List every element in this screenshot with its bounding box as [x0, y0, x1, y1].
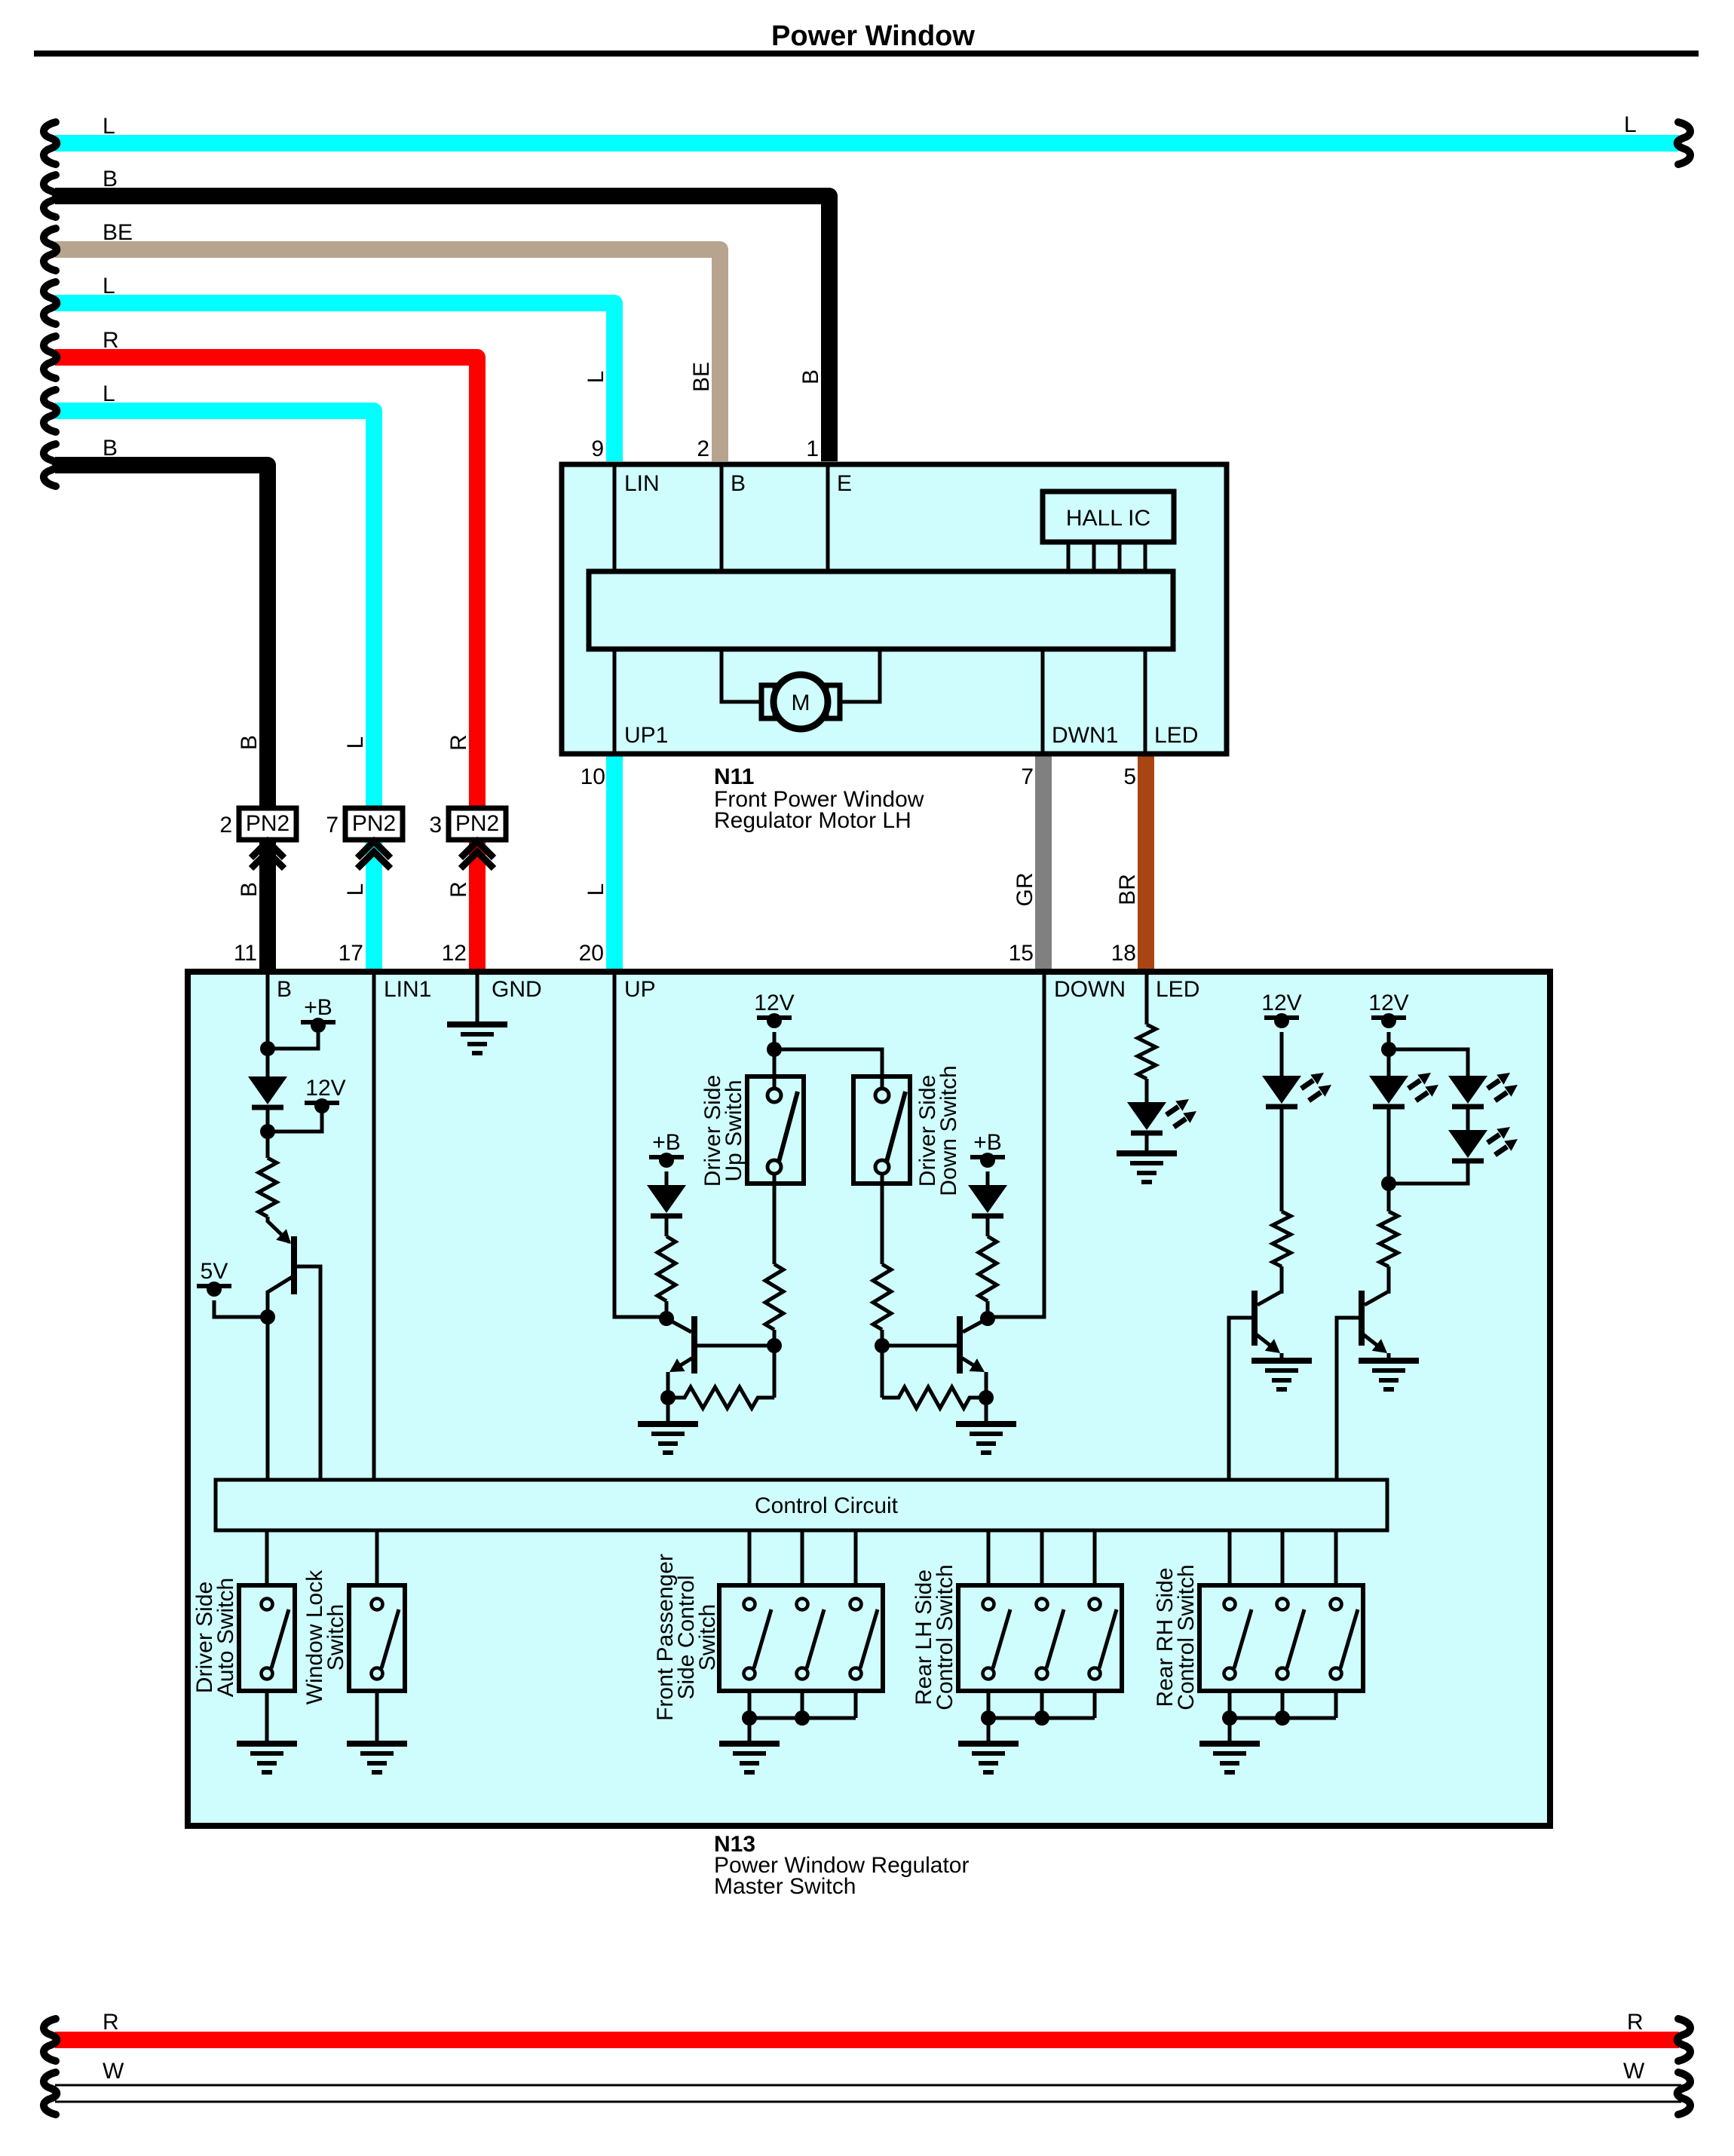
title rule: [34, 51, 1699, 57]
svg-text:Control Switch: Control Switch: [933, 1564, 957, 1710]
svg-text:W: W: [103, 2059, 124, 2084]
transistor Q3 bar: [957, 1316, 963, 1374]
wire LED1 to ground: [1145, 1132, 1149, 1153]
svg-text:Control Circuit: Control Circuit: [755, 1493, 899, 1518]
svg-text:12V: 12V: [754, 991, 794, 1015]
wire R9 to Q4: [1280, 1266, 1284, 1294]
svg-text:BE: BE: [689, 362, 714, 392]
break symbol wire B: [44, 175, 57, 217]
junction dot LED right: [1381, 1042, 1396, 1057]
svg-text:20: 20: [579, 941, 604, 966]
break symbol right wire L: [1677, 122, 1690, 164]
svg-text:LIN1: LIN1: [384, 977, 431, 1002]
diode D3: [968, 1185, 1007, 1216]
switch Driver Side Up: [747, 1076, 804, 1184]
LED LED3: [1369, 1073, 1438, 1107]
wire +B to diode: [665, 1171, 669, 1185]
wire 5V to line: [214, 1300, 268, 1317]
svg-text:B: B: [731, 471, 746, 496]
connector PN2 pin 7: [326, 808, 403, 840]
svg-text:L: L: [103, 114, 115, 139]
svg-text:PN2: PN2: [246, 811, 290, 836]
section line UP: [614, 975, 666, 1317]
transistor Q2 emitter: [673, 1358, 693, 1370]
break symbol wire B2: [44, 444, 57, 486]
wire bar to RH pole1: [1228, 1530, 1232, 1585]
divider UP1: [613, 649, 617, 752]
svg-text:DOWN: DOWN: [1054, 977, 1126, 1002]
svg-text:DWN1: DWN1: [1052, 723, 1118, 748]
terminal +B UP left: [649, 1130, 684, 1168]
svg-text:7: 7: [1021, 764, 1034, 789]
transistor Q2 collector: [666, 1318, 691, 1332]
svg-text:2: 2: [697, 436, 709, 461]
junction dot FP 1: [742, 1710, 757, 1726]
svg-text:3: 3: [429, 813, 442, 838]
ground LH: [958, 1744, 1019, 1772]
svg-text:Master Switch: Master Switch: [714, 1874, 856, 1899]
wire +B to diode D3: [986, 1171, 990, 1185]
wire Q5 to ground: [1387, 1353, 1391, 1361]
transistor Q3 emitter arrow: [970, 1358, 985, 1372]
svg-text:5V: 5V: [201, 1259, 228, 1284]
ground LED1: [1117, 1153, 1177, 1182]
wire down switch to resistor: [881, 1173, 884, 1264]
wire D3 to R6: [986, 1215, 990, 1236]
svg-text:Regulator Motor LH: Regulator Motor LH: [714, 808, 911, 833]
control circuit bar: [216, 1480, 1387, 1530]
svg-text:UP1: UP1: [624, 723, 668, 748]
svg-text:R: R: [446, 734, 471, 751]
svg-text:B: B: [103, 167, 118, 191]
junction dot 12V: [260, 1124, 275, 1139]
svg-text:15: 15: [1009, 941, 1034, 966]
transistor Q5 emitter arrow: [1372, 1339, 1387, 1353]
transistor Q4 base wire: [1229, 1318, 1255, 1478]
terminal 12V: [305, 1076, 346, 1113]
junction dot B+B: [260, 1041, 275, 1056]
diode D2: [647, 1185, 686, 1216]
wires FP poles down: [749, 1691, 856, 1744]
resistor R1: [259, 1158, 277, 1217]
wire BE to motor pin 2: [55, 250, 720, 461]
wires LH poles down: [988, 1691, 1095, 1744]
svg-text:5: 5: [1123, 764, 1136, 789]
LED LED5: [1448, 1127, 1518, 1161]
transistor Q3 collector: [963, 1318, 988, 1332]
break symbol R right: [1677, 2019, 1690, 2061]
wire bar to FP pole3: [854, 1530, 858, 1585]
resistor R3: [873, 1264, 891, 1330]
motor brush left: [761, 685, 775, 718]
divider LIN: [613, 466, 617, 571]
terminal 12V UP: [754, 991, 794, 1028]
motor M: [774, 675, 828, 729]
svg-text:L: L: [1624, 112, 1637, 137]
svg-text:Power Window: Power Window: [771, 20, 975, 52]
wire bar to RH pole2: [1281, 1530, 1285, 1585]
break symbol left wire L: [44, 122, 57, 164]
transistor Q2 base wire: [696, 1344, 774, 1348]
svg-text:12V: 12V: [305, 1076, 345, 1101]
connector PN2 pin 2: [219, 808, 296, 840]
svg-text:B: B: [103, 436, 118, 461]
junction dot Q2 collector: [659, 1311, 674, 1326]
break symbol wire L2: [44, 282, 57, 324]
svg-text:L: L: [584, 884, 608, 896]
svg-text:+B: +B: [304, 995, 332, 1020]
svg-text:UP: UP: [624, 977, 656, 1002]
wire 12V to down switch: [774, 1049, 882, 1089]
transistor Q5 emitter: [1363, 1334, 1384, 1351]
wire R6 to node: [986, 1301, 990, 1318]
junction dot RH 1: [1222, 1710, 1237, 1726]
terminal 5V: [197, 1259, 231, 1297]
svg-text:B: B: [237, 735, 262, 750]
svg-text:GR: GR: [1013, 873, 1037, 907]
resistor R8: [1138, 1024, 1156, 1079]
transistor Q4 emitter: [1256, 1334, 1277, 1351]
resistor R9: [1273, 1211, 1291, 1266]
divider B: [720, 466, 724, 571]
transistor Q2 emitter arrow: [669, 1358, 685, 1372]
junction dot 12V UP: [767, 1042, 782, 1057]
svg-text:17: 17: [339, 941, 363, 966]
LED LED4: [1448, 1073, 1518, 1107]
junction dot FP 2: [795, 1710, 810, 1726]
svg-text:L: L: [584, 371, 608, 384]
svg-text:LED: LED: [1156, 977, 1199, 1002]
ground Q4: [1251, 1361, 1312, 1389]
ground Q2: [638, 1424, 698, 1453]
wire branch right: [1389, 1049, 1468, 1076]
LED LED1: [1127, 1099, 1196, 1133]
wire Q4 to ground: [1280, 1353, 1284, 1361]
svg-text:1: 1: [806, 436, 819, 461]
wire D2 to R4: [665, 1215, 669, 1236]
svg-text:+B: +B: [973, 1130, 1002, 1155]
resistor R4: [657, 1236, 676, 1301]
hall ic box: [1043, 492, 1174, 542]
svg-text:BR: BR: [1115, 874, 1140, 905]
break symbol R left: [44, 2019, 57, 2061]
wire bar to LH pole3: [1093, 1530, 1097, 1585]
svg-text:BE: BE: [103, 220, 133, 245]
chevron marks PN2 3: [461, 841, 494, 868]
svg-text:R: R: [103, 2010, 119, 2035]
svg-text:Control Switch: Control Switch: [1174, 1564, 1199, 1710]
chevron marks PN2 2: [251, 841, 284, 868]
wire LED2 to R9: [1280, 1106, 1284, 1211]
ground Q5: [1359, 1361, 1419, 1389]
resistor R6: [979, 1236, 997, 1301]
resistor R5: [668, 1387, 774, 1408]
wire to motor left brush: [721, 649, 763, 702]
break symbol W right: [1677, 2072, 1690, 2115]
ground FP: [719, 1744, 780, 1772]
wire bar to LH pole1: [987, 1530, 991, 1585]
wire window lock to ground: [375, 1691, 379, 1744]
transistor Q4 collector: [1258, 1291, 1282, 1305]
switch Rear LH Side Control: [958, 1585, 1122, 1691]
wire to +B terminal: [268, 1033, 318, 1049]
svg-text:L: L: [103, 274, 115, 299]
diode D1: [248, 1076, 287, 1107]
switch Rear RH Side Control: [1199, 1585, 1363, 1691]
LED LED2: [1262, 1073, 1331, 1107]
ground window lock: [347, 1744, 407, 1772]
wire bar to FP pole2: [801, 1530, 804, 1585]
wire bar to window lock switch: [375, 1530, 379, 1585]
wire L to master pin 17: [55, 411, 374, 972]
break symbol wire L3: [44, 390, 57, 432]
wire bar to FP pole1: [748, 1530, 752, 1585]
svg-text:7: 7: [326, 813, 339, 838]
svg-text:B: B: [277, 977, 292, 1002]
transistor Q3 emitter: [961, 1358, 981, 1370]
switch Driver Side Down: [853, 1076, 910, 1184]
switch Window Lock: [349, 1585, 405, 1691]
motor inner bar: [589, 571, 1173, 649]
wire LED3 to R10: [1387, 1106, 1391, 1211]
svg-text:M: M: [792, 691, 810, 715]
svg-text:11: 11: [234, 941, 257, 966]
transistor Q3 base wire: [882, 1344, 958, 1348]
wire Q2 emitter down: [666, 1372, 670, 1398]
svg-text:E: E: [837, 471, 852, 496]
wire W bottom: [55, 2085, 1681, 2102]
transistor Q4 emitter arrow: [1265, 1339, 1280, 1353]
transistor Q1 bar: [291, 1236, 297, 1294]
wire 12V down: [773, 1032, 777, 1089]
junction dot LED merge: [1381, 1176, 1396, 1191]
transistor Q5 collector: [1365, 1291, 1389, 1305]
svg-text:B: B: [798, 369, 823, 384]
wire L (left-to-right): [55, 135, 1679, 152]
terminal +B: [301, 995, 335, 1033]
wire L to motor pin 9: [55, 303, 614, 461]
wire auto switch to ground: [265, 1691, 269, 1744]
svg-text:N11: N11: [714, 764, 754, 789]
junction dot Q3 collector: [980, 1311, 995, 1326]
svg-text:18: 18: [1111, 941, 1136, 966]
master switch box N13: [188, 972, 1550, 1826]
svg-text:12V: 12V: [1368, 991, 1408, 1015]
wire bar to RH pole3: [1334, 1530, 1338, 1585]
wire LED5 down: [1389, 1160, 1468, 1184]
section line B: [266, 975, 270, 1076]
junction dot Q2 emitter: [660, 1390, 676, 1405]
wire R bottom: [55, 2032, 1679, 2048]
svg-text:GND: GND: [492, 977, 542, 1002]
transistor Q4 bar: [1251, 1291, 1258, 1346]
resistor R2: [765, 1264, 783, 1330]
wire base chain Q3: [881, 1346, 884, 1398]
chevron marks PN2 7: [357, 841, 391, 868]
wire bar to LH pole2: [1040, 1530, 1044, 1585]
transistor Q5 bar: [1359, 1291, 1365, 1346]
junction dot LH 2: [1034, 1710, 1049, 1726]
section line LED: [1145, 975, 1149, 1024]
switch Driver Side Auto: [239, 1585, 295, 1691]
svg-text:12V: 12V: [1261, 991, 1301, 1015]
svg-text:B: B: [237, 882, 262, 897]
wire to 12V terminal: [268, 1110, 322, 1132]
transistor Q2 bar: [691, 1316, 697, 1374]
transistor Q1 right tap: [296, 1266, 320, 1478]
wire bar to driver auto switch: [265, 1530, 269, 1585]
svg-text:R: R: [1627, 2010, 1644, 2035]
wire R10 to Q5: [1387, 1266, 1391, 1294]
section line GND: [476, 975, 479, 1024]
svg-text:Up Switch: Up Switch: [721, 1080, 746, 1181]
divider E: [826, 466, 830, 571]
svg-text:2: 2: [219, 813, 232, 838]
svg-text:Down Switch: Down Switch: [936, 1065, 961, 1196]
break symbol W left: [44, 2072, 57, 2115]
wire 12V down LED right: [1387, 1032, 1391, 1076]
wire GR motor pin7 to master pin15: [1035, 754, 1052, 972]
resistor R7: [882, 1387, 986, 1408]
svg-text:12: 12: [442, 941, 467, 966]
svg-text:LED: LED: [1154, 723, 1198, 748]
wire base chain: [773, 1346, 777, 1398]
svg-text:R: R: [103, 328, 119, 353]
break symbol wire BE: [44, 228, 57, 271]
wire BR motor pin5 to master pin18: [1138, 754, 1154, 972]
switch Front Passenger Side Control: [719, 1585, 883, 1691]
break symbol wire R: [44, 336, 57, 378]
ground Q3: [956, 1424, 1016, 1453]
svg-text:PN2: PN2: [455, 811, 499, 836]
svg-text:Auto Switch: Auto Switch: [213, 1578, 238, 1697]
resistor R10: [1380, 1211, 1398, 1266]
wire R to master pin 12: [55, 357, 477, 972]
wire Q3 emitter down: [985, 1372, 988, 1398]
wire R3 to base: [881, 1330, 884, 1346]
ground RH: [1199, 1744, 1260, 1772]
junction dot Q3 emitter: [979, 1390, 994, 1405]
wire up switch to resistor: [773, 1173, 777, 1264]
transistor Q1 collector: [268, 1217, 290, 1242]
wire B to master pin 11: [55, 465, 268, 972]
terminal 12V LED right: [1368, 991, 1408, 1028]
divider LED: [1144, 649, 1147, 752]
section line DOWN: [988, 975, 1044, 1317]
wire L motor pin10 to master pin20: [606, 754, 623, 972]
wire B to motor pin 1: [55, 196, 829, 461]
svg-text:L: L: [343, 737, 368, 749]
svg-text:HALL IC: HALL IC: [1066, 506, 1150, 531]
connector PN2 pin 3: [429, 808, 506, 840]
terminal +B UP right: [970, 1130, 1005, 1168]
junction dot RH 2: [1275, 1710, 1290, 1726]
wire 12V to LED2: [1280, 1032, 1284, 1076]
svg-text:W: W: [1623, 2059, 1645, 2084]
wire to motor right brush: [838, 649, 880, 702]
svg-text:R: R: [446, 881, 471, 898]
transistor Q1 collector arrow: [276, 1229, 291, 1244]
wire to ground Q2: [666, 1398, 670, 1424]
section line LIN1: [372, 975, 376, 1478]
svg-text:PN2: PN2: [352, 811, 396, 836]
junction dot LH 1: [981, 1710, 996, 1726]
wire to ground Q3: [985, 1398, 988, 1424]
svg-text:Switch: Switch: [323, 1604, 348, 1671]
svg-text:+B: +B: [652, 1130, 681, 1155]
transistor Q1 emitter: [268, 1276, 293, 1478]
transistor Q5 base wire: [1337, 1318, 1362, 1478]
wire R4 to node: [665, 1301, 669, 1318]
wire R8 to LED1: [1145, 1079, 1149, 1102]
hall ic pins: [1068, 542, 1145, 571]
junction dot Q3 base: [875, 1338, 890, 1353]
svg-text:LIN: LIN: [624, 471, 660, 496]
motor box N11: [562, 464, 1227, 754]
wires RH poles down: [1230, 1691, 1336, 1744]
wire R2 to base: [773, 1330, 777, 1346]
svg-text:L: L: [103, 381, 115, 406]
svg-text:9: 9: [591, 436, 604, 461]
wire LED4 to LED5: [1466, 1106, 1470, 1130]
wire diode to resistor: [266, 1107, 270, 1158]
divider DWN1: [1041, 649, 1045, 752]
junction dot 5V: [260, 1309, 275, 1325]
ground auto switch: [237, 1744, 297, 1772]
svg-text:10: 10: [581, 764, 605, 789]
terminal 12V LED mid: [1261, 991, 1301, 1028]
svg-text:Switch: Switch: [695, 1604, 720, 1671]
svg-text:L: L: [343, 884, 368, 896]
ground GND section: [447, 1024, 507, 1053]
junction dot Q2 base: [767, 1338, 782, 1353]
motor brush right: [826, 685, 840, 718]
